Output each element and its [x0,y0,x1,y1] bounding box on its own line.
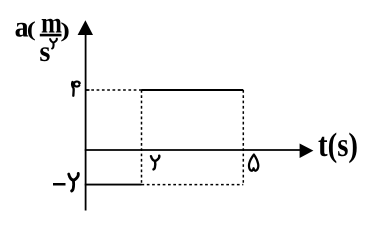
svg-text:(: ( [27,17,36,41]
svg-text:): ) [60,18,70,42]
svg-text:s: s [39,35,50,68]
svg-text:t(s): t(s) [318,127,358,164]
